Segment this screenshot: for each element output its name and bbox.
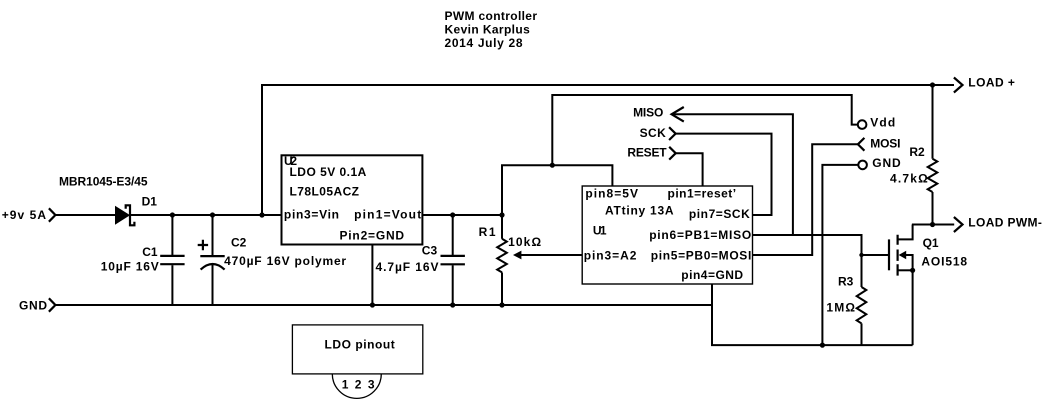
potentiometer R1 xyxy=(497,215,507,305)
transistor Q1 MOSFET xyxy=(889,225,915,346)
svg-text:1 2 3: 1 2 3 xyxy=(342,378,375,392)
svg-text:MOSI: MOSI xyxy=(870,136,900,150)
capacitor C1 xyxy=(160,215,184,305)
wire top rail LOAD+ xyxy=(262,85,954,215)
svg-text:Vdd: Vdd xyxy=(870,115,895,129)
svg-text:L78L05ACZ: L78L05ACZ xyxy=(290,184,360,198)
svg-text:470µF 16V polymer: 470µF 16V polymer xyxy=(224,254,346,268)
LDO pinout annotation box xyxy=(292,325,422,374)
junction C3 bottom xyxy=(450,302,455,307)
terminal Vdd circle xyxy=(858,120,867,129)
wire 5V node up to Vdd branch xyxy=(552,95,858,165)
svg-text:SCK: SCK xyxy=(640,126,667,140)
svg-text:pin1=reset’: pin1=reset’ xyxy=(668,187,737,201)
wire GND terminal to bottom rail xyxy=(822,165,858,345)
svg-text:GND: GND xyxy=(872,156,901,170)
node LOAD + arrow xyxy=(954,78,963,93)
wire D1 cathode to U2 pin3 xyxy=(130,214,282,216)
svg-text:4.7kΩ: 4.7kΩ xyxy=(890,172,928,186)
wire SCK to pin7 xyxy=(676,134,772,215)
wire U2 pin2 to GND rail xyxy=(371,245,373,306)
svg-text:GND: GND xyxy=(19,299,47,313)
wire pin5 to MOSI xyxy=(753,144,858,255)
svg-text:C2: C2 xyxy=(231,235,247,249)
wire gate node to Q1 gate xyxy=(862,254,890,256)
svg-text:10kΩ: 10kΩ xyxy=(508,235,541,249)
svg-text:C3: C3 xyxy=(422,244,438,258)
capacitor C2 (polarized) xyxy=(198,215,225,305)
diode D1 (Schottky) xyxy=(116,205,135,225)
junction 5V node xyxy=(550,163,555,168)
svg-text:R1: R1 xyxy=(479,225,496,239)
wire RESET to pin1 xyxy=(676,153,703,186)
node MISO arrow xyxy=(672,107,684,122)
junction bottom rail GND xyxy=(820,343,825,348)
node RESET connector xyxy=(669,147,676,160)
svg-text:Pin2=GND: Pin2=GND xyxy=(340,229,405,243)
svg-text:pin3=A2: pin3=A2 xyxy=(584,248,637,262)
svg-text:1MΩ: 1MΩ xyxy=(826,301,855,315)
wire +9v input to D1 anode xyxy=(55,214,116,216)
svg-text:+9v 5A: +9v 5A xyxy=(2,208,47,222)
svg-text:C1: C1 xyxy=(142,245,158,259)
svg-text:ATtiny 13A: ATtiny 13A xyxy=(605,203,674,217)
svg-text:2014 July 28: 2014 July 28 xyxy=(445,36,523,50)
svg-text:LOAD +: LOAD + xyxy=(968,75,1015,89)
svg-text:PWM controller: PWM controller xyxy=(445,9,538,23)
LDO pinout package semicircle xyxy=(332,374,381,398)
svg-text:Q1: Q1 xyxy=(923,236,939,250)
title text block xyxy=(445,9,538,50)
svg-text:pin6=PB1=MISO: pin6=PB1=MISO xyxy=(649,228,751,242)
svg-text:LDO pinout: LDO pinout xyxy=(325,338,395,352)
junction top-rail tap xyxy=(259,212,264,217)
svg-text:pin4=GND: pin4=GND xyxy=(681,268,743,282)
node LOAD PWM- arrow xyxy=(954,217,963,232)
svg-text:pin8=5V: pin8=5V xyxy=(585,187,638,201)
R1 wiper arrow xyxy=(513,251,582,260)
junction C3 top xyxy=(450,212,455,217)
svg-text:pin3=Vin: pin3=Vin xyxy=(284,208,339,222)
junction U2 GND on rail xyxy=(370,302,375,307)
node MOSI connector xyxy=(858,138,865,151)
resistor R2 xyxy=(928,85,938,225)
wire pin6 to Q1 gate node xyxy=(753,235,862,255)
svg-text:pin1=Vout: pin1=Vout xyxy=(354,208,421,222)
node GND input connector xyxy=(49,298,56,311)
svg-text:R2: R2 xyxy=(909,145,925,159)
junction R2 bottom xyxy=(930,222,935,227)
junction R1 bottom xyxy=(499,302,504,307)
junction gate node xyxy=(859,253,863,257)
junction R2 top on rail xyxy=(930,82,935,87)
wire LOAD PWM- row xyxy=(912,224,954,226)
wire pin4 to bottom rail xyxy=(712,284,913,345)
junction C1 top xyxy=(170,212,175,217)
wire MISO to pin6 xyxy=(672,114,793,235)
svg-text:MBR1045-E3/45: MBR1045-E3/45 xyxy=(59,175,148,189)
svg-text:LDO 5V 0.1A: LDO 5V 0.1A xyxy=(290,165,367,179)
terminal GND circle xyxy=(858,161,867,170)
node SCK connector xyxy=(669,127,676,140)
node +9v input connector xyxy=(49,208,56,221)
resistor R3 xyxy=(857,255,867,345)
svg-text:Kevin Karplus: Kevin Karplus xyxy=(445,22,531,36)
svg-text:R3: R3 xyxy=(838,275,854,289)
microcontroller U1 box xyxy=(582,186,752,284)
svg-text:AOI518: AOI518 xyxy=(921,255,967,269)
svg-text:10µF 16V: 10µF 16V xyxy=(101,260,159,274)
wire U2 Vout to R1 xyxy=(422,214,502,216)
junction R1 top xyxy=(499,212,504,217)
svg-text:MISO: MISO xyxy=(633,106,663,120)
junction C2 top xyxy=(210,212,215,217)
svg-text:D1: D1 xyxy=(142,195,158,209)
wire GND rail xyxy=(55,304,712,306)
svg-text:U1: U1 xyxy=(593,224,607,238)
capacitor C3 xyxy=(441,215,465,305)
regulator U2 box xyxy=(282,155,423,244)
svg-text:RESET: RESET xyxy=(627,146,667,160)
svg-text:LOAD PWM-: LOAD PWM- xyxy=(968,215,1042,229)
svg-text:pin7=SCK: pin7=SCK xyxy=(689,207,750,221)
wire 5V node: R1 top up and over to pin8 xyxy=(502,165,612,215)
svg-text:4.7µF 16V: 4.7µF 16V xyxy=(376,260,439,274)
svg-text:pin5=PB0=MOSI: pin5=PB0=MOSI xyxy=(651,248,752,262)
